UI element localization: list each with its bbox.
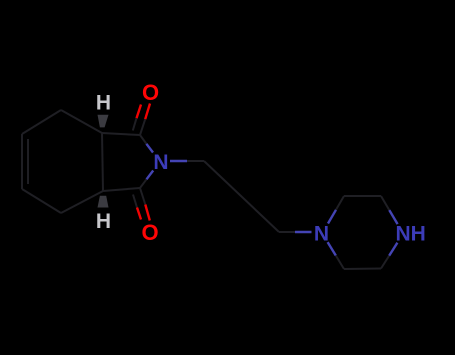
N1-CH2 chain bond (gray half) <box>187 160 204 162</box>
stereo wedge H at C7a <box>98 115 109 128</box>
cyclohexene ring: bond C7-C6 <box>22 110 61 134</box>
carbonyl C3=O2 double bond main line (gray half) <box>140 188 145 205</box>
piperazine: bond C(top-right)-NH gray half <box>381 196 389 210</box>
svg-text:H: H <box>96 210 111 233</box>
svg-text:N: N <box>153 151 168 174</box>
imide ring: bond N1-C1 (gray half) <box>140 135 146 144</box>
imide ring: bond N1-C1 (blue half) <box>146 144 153 153</box>
carbonyl C1=O1 double bond main line (gray half) <box>140 119 145 135</box>
carbonyl C3=O2 second line (red half) <box>137 208 141 220</box>
chain CH2-N2 bond (gray half) <box>279 231 295 233</box>
svg-text:O: O <box>141 220 158 245</box>
piperazine: bond N2-C(bottom-left) blue half <box>328 242 336 255</box>
cyclohexene ring: bond C7a-C7 <box>61 110 102 133</box>
cyclohexene ring: bond C4-C3a <box>61 191 103 213</box>
butyl chain C-C bonds (diagonal) <box>204 161 279 232</box>
cyclohexene ring: double bond C6=C5 <box>22 134 28 189</box>
imide ring: bond N1-C3 (blue half) <box>147 171 154 180</box>
carbonyl C1=O1 second line (gray half) <box>133 118 137 130</box>
stereo wedge H at C3a <box>98 196 109 208</box>
svg-text:O: O <box>142 80 159 105</box>
piperazine: bond C(bottom-right)-NH gray half <box>381 256 389 269</box>
piperazine: bottom edge C-C <box>344 268 381 271</box>
carbonyl C1=O1 second line (red half) <box>137 105 142 119</box>
carbonyl C1=O1 double bond main line (red half) <box>145 104 150 120</box>
imide ring: bond N1-C3 (gray half) <box>140 179 147 188</box>
piperazine: bond C(top-right)-NH blue half <box>389 210 397 224</box>
carbonyl C3=O2 double bond main line (red half) <box>145 205 150 221</box>
carbonyl C3=O2 second line (gray half) <box>133 195 137 208</box>
piperazine: bond C(bottom-right)-NH blue half <box>389 243 397 256</box>
svg-text:N: N <box>314 223 329 246</box>
piperazine: top edge C-C <box>344 195 381 197</box>
piperazine: bond N2-C(top-left) blue half <box>328 210 336 224</box>
cyclohexene ring: bond C5-C4 <box>22 189 61 213</box>
piperazine: bond N2-C(bottom-left) gray half <box>336 256 344 270</box>
ring fusion bond C7a-C3a <box>102 133 103 191</box>
N1-CH2 chain bond (blue half) <box>170 160 187 162</box>
svg-text:NH: NH <box>396 223 426 246</box>
piperazine: bond N2-C(top-left) gray half <box>336 196 344 210</box>
svg-text:H: H <box>96 92 111 115</box>
chain CH2-N2 bond (blue half) <box>295 231 312 233</box>
imide ring: bond C3-C3a <box>103 188 140 191</box>
imide ring: bond C1-C7a <box>102 133 140 135</box>
